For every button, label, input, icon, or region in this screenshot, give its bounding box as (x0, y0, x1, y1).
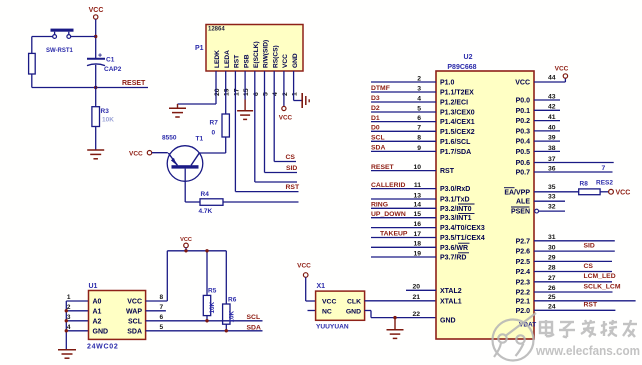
svg-text:17: 17 (233, 88, 240, 96)
overline EA (504, 187, 515, 189)
wire VCC pin2 to power (283, 71, 285, 106)
svg-text:31: 31 (548, 234, 556, 241)
svg-text:SCL: SCL (247, 314, 261, 321)
svg-text:P3.2/INT0: P3.2/INT0 (440, 206, 472, 213)
svg-text:R8: R8 (580, 181, 589, 188)
svg-text:U1: U1 (89, 283, 98, 290)
svg-text:P0.3: P0.3 (516, 128, 531, 135)
svg-text:D0: D0 (371, 125, 380, 132)
svg-text:10K: 10K (209, 301, 216, 313)
svg-text:P3.1/TxD: P3.1/TxD (440, 197, 470, 204)
svg-text:4: 4 (272, 92, 279, 96)
U2 pin 10 RST (371, 170, 436, 172)
wire R7 to T1 collector (225, 137, 227, 153)
svg-text:P3.4/T0/CEX3: P3.4/T0/CEX3 (440, 225, 485, 232)
svg-text:R5: R5 (208, 288, 217, 295)
svg-text:6: 6 (160, 314, 164, 321)
U2 pin 32 PSEN (535, 209, 539, 213)
svg-text:R3: R3 (101, 108, 110, 115)
svg-text:RING: RING (371, 202, 388, 209)
IC U1 24WC02 (89, 291, 146, 340)
svg-text:6: 6 (253, 92, 260, 96)
svg-text:UP_DOWN: UP_DOWN (371, 211, 406, 218)
svg-text:P2.3: P2.3 (516, 279, 531, 286)
svg-text:8: 8 (417, 135, 421, 142)
svg-text:VCC: VCC (279, 115, 293, 122)
wire U1 VCC pin8 to rail (146, 300, 168, 302)
svg-text:10K: 10K (229, 310, 236, 322)
svg-text:P1.1/T2EX: P1.1/T2EX (440, 90, 474, 97)
power VCC (U1 rail) (184, 243, 189, 248)
U2 pin 42 P0.1 (534, 109, 560, 111)
U2 pin 29 P2.5 (534, 260, 612, 262)
svg-text:P0.7: P0.7 (516, 170, 531, 177)
svg-text:VCC: VCC (515, 80, 530, 87)
power VCC (12864) (282, 106, 286, 110)
svg-text:RST: RST (584, 302, 598, 309)
svg-text:LEDA: LEDA (224, 50, 231, 68)
ground (reset circuit) (87, 149, 104, 151)
U2 pin 44 VCC (534, 81, 565, 83)
U2 pin 28 P2.4 (534, 271, 612, 273)
U2 pin 37 P0.6 (534, 162, 614, 164)
U2 pin 4 P1.2/ECI (371, 101, 436, 103)
wire LEDA pin19 to R7 (225, 71, 227, 114)
svg-text:28: 28 (548, 265, 556, 272)
svg-text:NC: NC (322, 308, 332, 315)
node junction ground (393, 316, 396, 319)
wire switch right to VCC node (71, 36, 96, 38)
wire R3 to ground (95, 127, 97, 151)
svg-text:24WC02: 24WC02 (87, 344, 118, 351)
wire LEDK pin20 to ground (215, 71, 217, 104)
earth ground (sideways) (301, 93, 303, 108)
U2 pin 3 P1.1/T2EX (371, 91, 436, 93)
svg-text:22: 22 (412, 311, 420, 318)
node junctions U1 (65, 309, 68, 312)
svg-text:35: 35 (548, 184, 556, 191)
svg-text:GND: GND (346, 308, 361, 315)
svg-text:VCC: VCC (322, 299, 336, 306)
ground (U1) (58, 349, 76, 351)
U2 pin 19 P3.7/RD (371, 256, 436, 258)
power VCC (R8) (609, 189, 614, 194)
svg-text:E(SCLK): E(SCLK) (253, 41, 260, 68)
svg-text:P1.0: P1.0 (440, 80, 455, 87)
svg-text:33: 33 (548, 194, 556, 201)
svg-text:20: 20 (214, 88, 221, 96)
wire E(SCLK) pin6 net (254, 71, 256, 182)
ground (X1/U2) (394, 318, 396, 330)
svg-text:1: 1 (292, 92, 299, 96)
svg-text:PSB: PSB (243, 54, 250, 68)
svg-text:12864: 12864 (208, 27, 225, 33)
svg-text:A1: A1 (93, 308, 102, 315)
U2 pin 30 P2.6 (534, 250, 615, 252)
svg-text:P2.1: P2.1 (516, 298, 531, 305)
svg-text:A2: A2 (93, 318, 102, 325)
svg-text:9: 9 (417, 145, 421, 152)
svg-text:44: 44 (548, 75, 556, 82)
svg-text:4.7K: 4.7K (199, 208, 213, 215)
svg-text:2: 2 (282, 92, 289, 96)
svg-text:P3.3/INT1: P3.3/INT1 (440, 215, 472, 222)
wire GND pin1 to earth (293, 71, 295, 101)
watermark text dianzifashaoyou (540, 320, 637, 337)
svg-text:P3.5/T1/CEX4: P3.5/T1/CEX4 (440, 235, 485, 242)
U2 pin 27 P2.3 (534, 281, 612, 283)
svg-text:SID: SID (286, 165, 297, 172)
svg-text:P1.4/CEX1: P1.4/CEX1 (440, 119, 475, 126)
svg-text:CS: CS (584, 263, 594, 270)
resistor R4 4.7K (200, 199, 223, 206)
svg-text:RST: RST (234, 55, 241, 68)
svg-text:0: 0 (212, 130, 216, 137)
svg-text:VCC: VCC (616, 190, 631, 197)
svg-text:10: 10 (413, 164, 421, 171)
svg-text:VCC: VCC (89, 7, 104, 14)
svg-text:27: 27 (548, 275, 556, 282)
U2 pin 8 P1.6/SCL (371, 140, 436, 142)
svg-text:42: 42 (548, 104, 556, 111)
U2 pin 16 P3.4/T0/CEX3 (371, 227, 436, 229)
svg-text:WAP: WAP (126, 308, 142, 315)
svg-text:P0.2: P0.2 (516, 118, 531, 125)
resistor R3 10K (95, 88, 97, 107)
svg-text:CAP2: CAP2 (104, 66, 122, 73)
U2 pin 24 P2.0 (534, 309, 615, 311)
svg-text:LCM_LED: LCM_LED (584, 273, 616, 280)
svg-text:P2.2: P2.2 (516, 290, 531, 297)
svg-text:R4: R4 (201, 191, 210, 198)
svg-text:U2: U2 (464, 54, 473, 61)
svg-text:P2.4: P2.4 (516, 269, 531, 276)
U2 pin 9 P1.7/SDA (371, 150, 436, 152)
svg-text:2: 2 (67, 304, 71, 311)
svg-text:P0.1: P0.1 (516, 108, 531, 115)
U2 pin 2 P1.0 (371, 81, 436, 83)
svg-text:43: 43 (548, 93, 556, 100)
wire R8 to VCC (600, 191, 609, 193)
resistor R2 (switch branch) (29, 53, 36, 74)
svg-text:VCC: VCC (180, 237, 192, 243)
svg-text:R/W(SID): R/W(SID) (263, 40, 270, 68)
transistor Q T1 8550 (167, 146, 203, 182)
oscillator X1 YUUYUAN (316, 291, 365, 320)
svg-text:CS: CS (286, 154, 296, 161)
wire U1 left pins to ground rail (65, 301, 67, 350)
svg-text:11: 11 (414, 182, 421, 189)
resistor R5 10K pullup (206, 251, 208, 296)
svg-text:RESET: RESET (371, 164, 395, 171)
svg-text:T1: T1 (196, 136, 204, 143)
svg-text:20: 20 (412, 284, 420, 291)
U2 pin 6 P1.4/CEX1 (371, 121, 436, 123)
svg-text:P89C668: P89C668 (447, 64, 476, 71)
resistor R7 0 (222, 114, 229, 137)
U2 pin 26 P2.2 (534, 291, 613, 293)
node junction RESET (94, 86, 97, 89)
U2 pin 39 P0.4 (534, 140, 560, 142)
svg-text:2: 2 (417, 75, 421, 82)
svg-text:RESET: RESET (122, 80, 146, 87)
svg-text:P3.7/RD: P3.7/RD (440, 255, 466, 262)
svg-text:25: 25 (548, 294, 556, 301)
svg-text:D3: D3 (371, 95, 380, 102)
svg-text:P0.4: P0.4 (516, 139, 531, 146)
overline PSEN (511, 206, 530, 208)
svg-text:SCLK_LCM: SCLK_LCM (584, 283, 621, 290)
svg-text:RST: RST (286, 184, 300, 191)
svg-text:RES2: RES2 (596, 180, 613, 187)
svg-text:7: 7 (417, 125, 421, 132)
ground (LEDK) (169, 107, 186, 109)
connector P1 12864 LCD (206, 25, 303, 72)
svg-text:6: 6 (417, 115, 421, 122)
svg-text:GND: GND (292, 53, 299, 68)
svg-text:SCL: SCL (128, 318, 143, 325)
wire SCL net (146, 320, 263, 322)
U2 pin 7 P1.5/CEX2 (371, 130, 436, 132)
svg-text:VCC: VCC (297, 263, 311, 270)
svg-text:ALE: ALE (516, 199, 530, 206)
svg-text:P0.6: P0.6 (516, 160, 531, 167)
U2 pin 5 P1.3/CEX0 (371, 111, 436, 113)
svg-text:SID: SID (584, 243, 595, 250)
IC U2 P89C668 (436, 71, 534, 339)
svg-text:R7: R7 (210, 120, 219, 127)
overline INT0 (458, 203, 475, 205)
svg-text:RS(CS): RS(CS) (272, 45, 279, 68)
svg-text:LEDK: LEDK (214, 50, 221, 68)
U2 pin 13 P3.1/TxD (371, 198, 436, 200)
svg-text:GND: GND (93, 328, 109, 335)
overline INT1 (458, 212, 475, 214)
svg-text:SDA: SDA (371, 145, 385, 152)
watermark logo elecfans (493, 313, 537, 361)
U2 pin 18 P3.6/WR (371, 246, 436, 248)
svg-text:1: 1 (67, 294, 71, 301)
wire RS(CS) pin4 net (273, 71, 275, 162)
svg-text:P1.2/ECI: P1.2/ECI (440, 100, 468, 107)
svg-text:19: 19 (413, 250, 421, 257)
resistor R6 10K pullup (225, 251, 227, 304)
overline RD (458, 252, 469, 254)
svg-text:37: 37 (548, 156, 556, 163)
U2 pin 36 P0.7 (534, 171, 613, 173)
svg-text:19: 19 (224, 88, 231, 96)
svg-text:17: 17 (413, 231, 421, 238)
svg-text:40: 40 (548, 124, 556, 131)
ground (PSB) (237, 110, 253, 112)
svg-text:P0.5: P0.5 (516, 149, 531, 156)
svg-text:3: 3 (67, 314, 71, 321)
switch SW-RST1 (51, 29, 74, 32)
svg-text:5: 5 (160, 324, 164, 331)
svg-text:3: 3 (417, 85, 421, 92)
svg-text:P3.6/WR: P3.6/WR (440, 245, 468, 252)
svg-text:SDA: SDA (247, 324, 261, 331)
svg-text:SCL: SCL (371, 135, 385, 142)
svg-text:29: 29 (548, 255, 556, 262)
resistor R8 RES2 (579, 189, 600, 195)
svg-text:24: 24 (548, 304, 556, 311)
svg-text:36: 36 (548, 165, 556, 172)
svg-text:16: 16 (413, 221, 421, 228)
svg-text:SW-RST1: SW-RST1 (46, 48, 74, 54)
svg-text:PSEN: PSEN (511, 209, 530, 216)
svg-text:P0.0: P0.0 (516, 98, 531, 105)
U2 pin 33 ALE (534, 200, 565, 202)
svg-text:15: 15 (413, 211, 421, 218)
svg-text:CLK: CLK (347, 299, 361, 306)
U2 pin 14 P3.2/INT0 (371, 207, 436, 209)
wire VCC to T1 (152, 152, 168, 154)
svg-text:A0: A0 (93, 299, 102, 306)
svg-text:38: 38 (548, 145, 556, 152)
overline WR (458, 242, 470, 244)
U2 pin 20 XTAL2 (406, 289, 436, 291)
svg-text:VCC: VCC (127, 299, 142, 306)
svg-text:P2.0: P2.0 (516, 308, 531, 315)
svg-text:DTMF: DTMF (371, 85, 390, 92)
svg-text:+: + (98, 53, 102, 60)
svg-text:7: 7 (602, 165, 606, 172)
svg-text:4: 4 (417, 95, 421, 102)
svg-text:13: 13 (413, 192, 421, 199)
svg-text:14: 14 (413, 202, 421, 209)
wire T1 base to R4 (184, 169, 186, 202)
svg-text:VCC: VCC (555, 66, 569, 73)
svg-text:VCC: VCC (129, 151, 143, 158)
svg-text:21: 21 (412, 294, 420, 301)
svg-text:R6: R6 (228, 297, 237, 304)
svg-text:RST: RST (440, 168, 455, 175)
U2 pin 38 P0.5 (534, 150, 560, 152)
U2 pin 35 EA/VPP (534, 191, 579, 193)
svg-text:15: 15 (243, 88, 250, 96)
svg-text:41: 41 (548, 114, 556, 121)
svg-text:10K: 10K (102, 117, 114, 124)
wire R4 net (223, 201, 299, 203)
wire SDA net (146, 330, 263, 332)
svg-text:X1: X1 (317, 283, 326, 290)
svg-text:SDA: SDA (127, 328, 142, 335)
capacitor C1 CAP2 (87, 58, 105, 60)
svg-text:P2.5: P2.5 (516, 259, 531, 266)
svg-text:XTAL1: XTAL1 (440, 298, 462, 305)
svg-text:4: 4 (67, 324, 71, 331)
svg-text:39: 39 (548, 135, 556, 142)
svg-text:8550: 8550 (162, 135, 177, 142)
svg-text:P1.5/CEX2: P1.5/CEX2 (440, 129, 475, 136)
U2 pin 43 P0.0 (534, 99, 560, 101)
power VCC (pin44) (563, 74, 567, 78)
svg-text:D1: D1 (371, 115, 380, 122)
svg-text:C1: C1 (106, 57, 115, 64)
svg-text:P1: P1 (195, 45, 204, 52)
svg-text:7: 7 (160, 304, 164, 311)
wire CLK to XTAL1 (365, 300, 436, 302)
svg-text:8: 8 (160, 294, 164, 301)
wire RST pin17 net (234, 71, 236, 192)
svg-text:P3.0/RxD: P3.0/RxD (440, 186, 470, 193)
wire R/W(SID) pin5 net (264, 71, 266, 173)
wire VCC to X1 (305, 277, 307, 301)
svg-text:P2.7: P2.7 (516, 238, 531, 245)
wire NC stub (308, 310, 316, 312)
U2 pin 31 P2.7 (534, 240, 615, 242)
svg-text:32: 32 (548, 204, 556, 211)
svg-text:www.elecfans.com: www.elecfans.com (535, 343, 640, 358)
svg-text:EA/VPP: EA/VPP (504, 189, 530, 196)
svg-text:TAKEUP: TAKEUP (380, 231, 408, 238)
node junction top (94, 35, 97, 38)
wire resistor to RESET line (31, 74, 33, 88)
svg-text:P1.7/SDA: P1.7/SDA (440, 149, 471, 156)
svg-text:P1.6/SCL: P1.6/SCL (440, 139, 471, 146)
wire switch left down (32, 36, 53, 38)
svg-text:XTAL2: XTAL2 (440, 288, 462, 295)
U2 pin 15 P3.3/INT1 (371, 217, 436, 219)
svg-text:VCC: VCC (282, 54, 289, 68)
svg-text:5: 5 (417, 105, 421, 112)
wire PSB pin15 to ground (244, 71, 246, 100)
svg-text:D2: D2 (371, 105, 380, 112)
U2 pin 40 P0.3 (534, 130, 560, 132)
U2 pin 17 P3.5/T1/CEX4 (371, 237, 436, 239)
svg-text:30: 30 (548, 244, 556, 251)
wire X1 GND to U2 GND (365, 310, 371, 312)
U2 pin 11 P3.0/RxD (371, 188, 436, 190)
U2 pin 41 P0.2 (534, 120, 560, 122)
svg-text:18: 18 (413, 241, 421, 248)
U2 pin 25 P2.1 (534, 300, 636, 302)
svg-text:YUUYUAN: YUUYUAN (316, 324, 349, 331)
svg-text:CALLERID: CALLERID (371, 182, 405, 189)
svg-text:26: 26 (548, 285, 556, 292)
svg-text:P2.6: P2.6 (516, 249, 531, 256)
wire VCC to node RESET-top (95, 19, 97, 58)
svg-text:5: 5 (263, 92, 270, 96)
svg-text:P1.3/CEX0: P1.3/CEX0 (440, 110, 475, 117)
svg-text:GND: GND (440, 318, 456, 325)
wire U1 WAP pin7 stub (146, 310, 166, 312)
